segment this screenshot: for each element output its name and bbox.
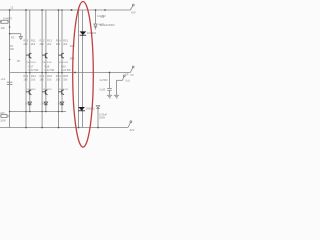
svg-text:2k2: 2k2: [31, 42, 36, 46]
svg-text:1N5402: 1N5402: [86, 106, 96, 110]
svg-text:1k5: 1k5: [47, 77, 52, 81]
svg-text:2SC5200: 2SC5200: [27, 62, 37, 64]
svg-text:2SC5200: 2SC5200: [59, 62, 69, 64]
svg-text:10k: 10k: [1, 26, 6, 30]
svg-text:1N: 1N: [58, 102, 61, 106]
svg-text:1N4007: 1N4007: [3, 16, 13, 20]
svg-text:1k5: 1k5: [56, 77, 61, 81]
svg-text:2SA1943: 2SA1943: [27, 88, 37, 91]
svg-text:-42V: -42V: [129, 128, 135, 132]
svg-text:0.22 5W: 0.22 5W: [45, 68, 55, 72]
svg-text:C9: C9: [101, 15, 105, 19]
svg-text:2SA1943: 2SA1943: [43, 88, 53, 91]
svg-text:2k2: 2k2: [23, 42, 28, 46]
svg-text:2k2: 2k2: [40, 42, 45, 46]
svg-text:+C1: +C1: [1, 77, 6, 81]
svg-text:0.33uF/250V: 0.33uF/250V: [100, 23, 115, 27]
svg-text:0V: 0V: [131, 73, 134, 77]
svg-text:0u1: 0u1: [126, 78, 131, 82]
svg-text:R3: R3: [11, 35, 15, 39]
svg-text:42V: 42V: [131, 10, 136, 14]
svg-text:2k2: 2k2: [56, 42, 61, 46]
svg-text:1k5: 1k5: [40, 77, 45, 81]
svg-text:1N: 1N: [25, 102, 28, 106]
svg-text:2SA1943: 2SA1943: [59, 88, 69, 91]
svg-text:0.22 5W: 0.22 5W: [29, 68, 39, 72]
svg-text:0.22 5W: 0.22 5W: [61, 68, 71, 72]
svg-text:0u33: 0u33: [100, 87, 106, 91]
svg-text:4u7/63: 4u7/63: [100, 78, 108, 82]
svg-text:100: 100: [10, 47, 15, 51]
svg-text:2k2: 2k2: [47, 42, 52, 46]
svg-text:1k5: 1k5: [31, 77, 36, 81]
svg-text:2SC5200: 2SC5200: [43, 62, 53, 64]
svg-text:R26: R26: [70, 44, 75, 48]
svg-text:220: 220: [0, 111, 5, 115]
svg-text:SP: SP: [125, 73, 129, 77]
svg-text:1k5: 1k5: [63, 77, 68, 81]
svg-text:R7: R7: [17, 59, 21, 63]
svg-text:1k5: 1k5: [23, 77, 28, 81]
svg-text:2k2: 2k2: [63, 42, 68, 46]
svg-text:1N: 1N: [41, 102, 44, 106]
svg-text:10W: 10W: [0, 119, 6, 123]
svg-text:250V: 250V: [99, 116, 105, 120]
